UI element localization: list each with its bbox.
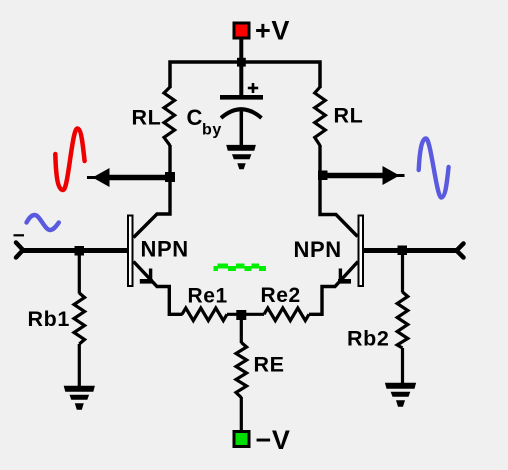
svg-text:−V: −V bbox=[256, 425, 291, 455]
wire top supply bus bbox=[170, 62, 320, 88]
svg-text:RL: RL bbox=[334, 104, 364, 128]
node bus/cap junction bbox=[237, 58, 246, 67]
waveform blue output sine (right) bbox=[419, 139, 449, 198]
node left base junction bbox=[75, 246, 85, 256]
wire left output arrow bbox=[107, 175, 171, 181]
svg-text:Re1: Re1 bbox=[188, 285, 228, 308]
wire right collector bbox=[320, 145, 358, 237]
wire right emitter bbox=[309, 262, 358, 315]
wire left collector bbox=[134, 145, 171, 238]
svg-text:by: by bbox=[202, 122, 222, 139]
green overlay squiggle bbox=[214, 264, 267, 272]
wire base junction to Rb2 bbox=[401, 251, 404, 293]
resistor RL (left) bbox=[164, 87, 175, 146]
resistor Re1 bbox=[182, 308, 227, 321]
wire Rb1 to ground bbox=[78, 344, 81, 386]
wire emitter bus center bbox=[227, 313, 264, 316]
svg-text:RE: RE bbox=[254, 353, 285, 377]
emitter arrow Q1 bbox=[149, 269, 152, 280]
node left collector junction bbox=[165, 172, 175, 182]
resistor Rb1 bbox=[74, 293, 85, 344]
waveform red output sine (left) bbox=[55, 129, 84, 191]
wire base junction to Rb1 bbox=[78, 251, 81, 294]
svg-text:Re2: Re2 bbox=[261, 284, 301, 307]
node right base junction bbox=[398, 246, 408, 256]
ground (Rb1) bbox=[64, 386, 95, 410]
ground (Rb2) bbox=[385, 383, 416, 407]
terminal right chevron bbox=[457, 244, 464, 258]
wire junction to RE bbox=[240, 315, 243, 343]
node right collector junction bbox=[318, 171, 328, 181]
svg-text:C: C bbox=[187, 105, 204, 130]
resistor RE bbox=[236, 343, 247, 398]
wire left base bbox=[22, 248, 127, 253]
capacitor C_by bbox=[220, 62, 263, 146]
svg-text:RL: RL bbox=[132, 106, 162, 130]
wire RE to -V bbox=[240, 397, 243, 431]
transistor Q1 bar (left NPN) bbox=[128, 216, 133, 287]
resistor Re2 bbox=[264, 308, 309, 321]
-V terminal (green square) bbox=[234, 432, 249, 447]
node tail junction bbox=[236, 310, 246, 320]
svg-text:NPN: NPN bbox=[141, 237, 189, 262]
svg-text:Rb2: Rb2 bbox=[347, 327, 389, 351]
wire right output arrow bbox=[321, 173, 385, 179]
svg-text:NPN: NPN bbox=[294, 237, 342, 262]
svg-text:+V: +V bbox=[255, 16, 290, 46]
+V terminal (red square) bbox=[234, 23, 249, 38]
resistor Rb2 bbox=[397, 292, 408, 348]
resistor RL (right) bbox=[315, 87, 326, 146]
wire left emitter bbox=[134, 262, 183, 315]
minus mark at input bbox=[14, 234, 25, 236]
emitter arrow Q2 bbox=[339, 269, 342, 280]
waveform blue input sine (left) bbox=[27, 215, 59, 230]
svg-text:Rb1: Rb1 bbox=[28, 307, 70, 331]
transistor Q2 bar (right NPN) bbox=[359, 216, 364, 287]
terminal left input chevron bbox=[16, 243, 23, 258]
wire right base bbox=[364, 248, 457, 253]
ground (capacitor) bbox=[226, 145, 256, 169]
wire Rb2 to ground bbox=[401, 348, 404, 383]
wire +V terminal to bus bbox=[239, 38, 243, 62]
